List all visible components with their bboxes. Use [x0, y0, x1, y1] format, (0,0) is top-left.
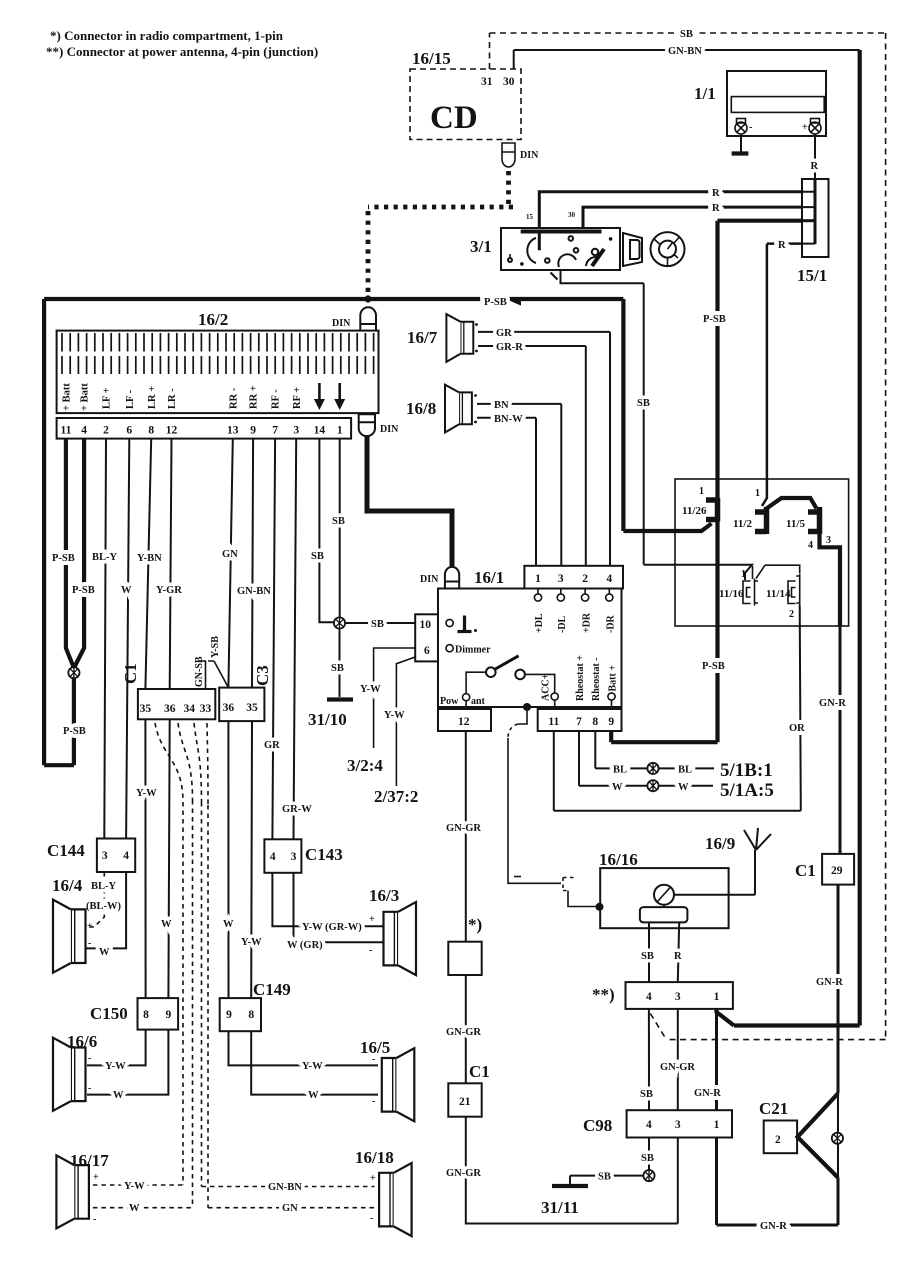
antenna lead triangle at C21: [798, 1093, 839, 1177]
tick below 3/1: [551, 273, 558, 280]
svg-text:31/10: 31/10: [308, 710, 347, 729]
svg-text:21: 21: [459, 1096, 471, 1108]
wire GR pin 7 to C143: [272, 439, 275, 840]
svg-text:15/1: 15/1: [797, 266, 827, 285]
wire GN pin 13 to C3: [228, 439, 232, 688]
wire Y-GR pin 12 to C1: [170, 439, 172, 689]
svg-text:+DR: +DR: [582, 612, 593, 633]
svg-text:3: 3: [102, 850, 108, 862]
svg-text:GN-R: GN-R: [760, 1221, 787, 1232]
svg-text:4: 4: [606, 573, 612, 585]
svg-text:3: 3: [291, 851, 297, 863]
svg-text:C150: C150: [90, 1004, 128, 1023]
svg-text:36: 36: [223, 702, 235, 714]
wire GN-R C98 pin1 to C21 antenna lead: [717, 1138, 839, 1226]
svg-text:SB: SB: [371, 619, 384, 630]
svg-text:W: W: [223, 919, 234, 930]
svg-text:GR-W: GR-W: [282, 804, 312, 815]
connector C143: [264, 839, 301, 873]
wire GN-GR **)3 to C98: [677, 1009, 679, 1110]
svg-text:C1: C1: [795, 861, 816, 880]
svg-text:4: 4: [646, 991, 652, 1003]
motor body: [640, 907, 688, 922]
svg-text:-: -: [372, 1096, 375, 1107]
dashed wires from C1 to rear speakers: [155, 723, 208, 1208]
DIN connector of 16/1: [445, 567, 459, 589]
svg-text:OR: OR: [789, 723, 805, 734]
svg-text:30: 30: [568, 211, 576, 219]
ground 31/10: [327, 697, 353, 701]
svg-text:Y-SB: Y-SB: [210, 636, 221, 658]
svg-text:1: 1: [699, 486, 704, 497]
wire W C3 pin 36 to C149: [227, 721, 229, 998]
svg-text:GN-R: GN-R: [694, 1088, 721, 1099]
svg-text:3/2:4: 3/2:4: [347, 756, 383, 775]
connector C1: [138, 689, 215, 719]
wire W pin 6 to C144: [126, 439, 129, 839]
svg-text:6: 6: [424, 645, 430, 657]
svg-text:SB: SB: [640, 1089, 653, 1100]
svg-text:R: R: [712, 188, 720, 199]
svg-text:9: 9: [608, 716, 614, 728]
svg-text:1: 1: [337, 425, 343, 437]
16/2 connector strip: [57, 331, 379, 414]
svg-text:LR +: LR +: [147, 386, 158, 409]
svg-text:RF -: RF -: [271, 389, 282, 409]
svg-text:33: 33: [200, 703, 212, 715]
svg-text:Y-W: Y-W: [105, 1061, 126, 1072]
wire SB splice to 16/1 pin 10: [345, 622, 415, 624]
svg-text:P-SB: P-SB: [72, 585, 95, 596]
wire BN-W 16/8 to 16/1 pin 1: [477, 418, 536, 566]
svg-text:4: 4: [81, 425, 87, 437]
svg-text:GR: GR: [496, 328, 512, 339]
svg-text:DIN: DIN: [420, 574, 439, 585]
wire GN-BN pin 9 to C3: [252, 439, 253, 688]
svg-text:-: -: [749, 122, 752, 133]
ACC+ pin: [551, 693, 558, 700]
svg-text:3/1: 3/1: [470, 237, 492, 256]
svg-text:LF +: LF +: [102, 387, 113, 409]
svg-text:16/2: 16/2: [198, 310, 228, 329]
wire GR 16/7 to 16/1 pin 4: [478, 332, 610, 566]
svg-text:-: -: [93, 1214, 96, 1225]
svg-text:Batt +: Batt +: [608, 665, 619, 692]
svg-text:GN-R: GN-R: [816, 977, 843, 988]
svg-text:+: +: [93, 1172, 99, 1183]
splice of P-SB wires: [68, 667, 79, 678]
wire Y-W from 16/1 pin6 box to 3/2:4: [374, 648, 416, 748]
svg-text:9: 9: [226, 1009, 232, 1021]
ground of 1/1 left bulb: [740, 134, 742, 152]
svg-text:7: 7: [576, 716, 582, 728]
svg-text:8: 8: [148, 425, 154, 437]
wire SB splice to ground 31/11: [570, 1176, 643, 1184]
svg-text:Y-GR: Y-GR: [156, 585, 182, 596]
wire from junction to 16/16: [518, 711, 527, 724]
DIN connector of CD: [502, 143, 515, 167]
svg-text:DIN: DIN: [520, 150, 539, 161]
switch inside 16/1: [466, 672, 486, 693]
svg-text:GN-GR: GN-GR: [446, 823, 481, 834]
svg-text:C3: C3: [253, 665, 272, 686]
wire C98 pin3 down to GN-GR run: [677, 1138, 679, 1224]
svg-text:6: 6: [126, 425, 132, 437]
svg-text:Pow: Pow: [440, 696, 459, 707]
svg-text:Y-W (GR-W): Y-W (GR-W): [302, 922, 362, 933]
wire R from 1/1 right bulb to 15/1: [814, 134, 816, 179]
fuse box: [675, 479, 849, 626]
wire GN-SB stub on C1 pin 33: [199, 661, 206, 689]
svg-text:RF +: RF +: [292, 387, 303, 409]
svg-text:+: +: [802, 122, 808, 133]
svg-text:11: 11: [60, 425, 71, 437]
svg-text:*): *): [468, 915, 482, 934]
wire GN-GR 16/1 pin 12 chain: [465, 731, 467, 942]
Pow ant pin: [463, 694, 470, 701]
svg-text:9: 9: [166, 1009, 172, 1021]
svg-text:GR-R: GR-R: [496, 342, 523, 353]
svg-text:P-SB: P-SB: [484, 297, 507, 308]
svg-text:4: 4: [270, 851, 276, 863]
svg-text:12: 12: [458, 716, 470, 728]
svg-text:16/8: 16/8: [406, 399, 436, 418]
wire SB pin 14: [319, 439, 334, 623]
wire W C144 to 16/4: [86, 872, 126, 948]
junction dot on P-SB top line: [364, 295, 371, 302]
svg-text:GN-BN: GN-BN: [668, 46, 702, 57]
16/1 bottom strip pins 11 7 8 9: [538, 709, 622, 731]
wire OR 11/14 to 16/1 pin 11: [554, 606, 801, 811]
bridge 11/2 to 11/5: [766, 498, 816, 509]
svg-text:11/16: 11/16: [719, 588, 744, 600]
svg-text:P-SB: P-SB: [63, 726, 86, 737]
wire W C1 pin 36 to C150: [168, 719, 169, 998]
wire BL-Y pin 2 to C144: [104, 439, 106, 839]
wire SB pin 1: [339, 439, 341, 617]
svg-text:R: R: [674, 951, 682, 962]
16/1 left connector box pins 10 6: [415, 614, 438, 661]
wire Y-W C1 pin 35 to C150: [144, 719, 146, 998]
wire R ignition to 15/1 (second): [583, 207, 802, 228]
svg-text:31: 31: [481, 76, 493, 88]
svg-text:(BL-W): (BL-W): [86, 901, 122, 912]
svg-text:+: +: [87, 921, 93, 932]
svg-text:Y-W: Y-W: [302, 1061, 323, 1072]
svg-text:W: W: [161, 919, 172, 930]
svg-text:BL-Y: BL-Y: [92, 552, 118, 563]
wire antenna to 16/9: [674, 850, 755, 895]
svg-text:C21: C21: [759, 1099, 788, 1118]
svg-text:Y-W: Y-W: [136, 788, 157, 799]
svg-text:GN-GR: GN-GR: [446, 1027, 481, 1038]
svg-text:16/3: 16/3: [369, 886, 399, 905]
16/2 pin number row: [57, 418, 352, 439]
Batt+ pin: [608, 693, 615, 700]
svg-text:GN-SB: GN-SB: [194, 656, 205, 687]
svg-text:1: 1: [714, 991, 720, 1003]
svg-text:R: R: [811, 161, 819, 172]
wire W C149 to 16/5: [251, 1031, 378, 1094]
svg-text:-: -: [88, 1053, 91, 1064]
svg-text:**): **): [592, 985, 615, 1004]
svg-text:8: 8: [248, 1009, 254, 1021]
svg-text:-: -: [88, 938, 91, 949]
wire W 16/1 pin 7 to 5/1A:5: [579, 731, 713, 786]
svg-text:P-SB: P-SB: [702, 661, 725, 672]
junction dot on 16/1 bottom edge: [523, 703, 531, 711]
key bezel of 3/1: [623, 233, 642, 266]
svg-text:DIN: DIN: [332, 318, 351, 329]
svg-text:SB: SB: [637, 398, 650, 409]
wire Y-BN pin 8 to C1: [145, 439, 151, 689]
svg-text:7: 7: [272, 425, 278, 437]
wire Y-W C3 pin 35 to C149: [250, 721, 253, 998]
svg-text:13: 13: [227, 425, 239, 437]
svg-text:2: 2: [582, 573, 588, 585]
svg-text:Y-W: Y-W: [360, 684, 381, 695]
svg-text:C149: C149: [253, 980, 291, 999]
svg-text:C1: C1: [121, 663, 140, 684]
svg-text:16/1: 16/1: [474, 568, 504, 587]
svg-text:16/15: 16/15: [412, 49, 451, 68]
16/2 rotated pin labels: [62, 383, 303, 411]
svg-text:GN: GN: [282, 1203, 298, 1214]
bulb left of 1/1: [735, 119, 747, 135]
svg-text:GN-R: GN-R: [819, 698, 846, 709]
wire R ignition to 15/1 (top): [539, 192, 802, 228]
svg-text:34: 34: [183, 703, 195, 715]
wire W (GR) C143 to 16/3: [294, 873, 384, 942]
svg-text:C98: C98: [583, 1116, 612, 1135]
svg-text:1: 1: [535, 573, 541, 585]
wire GR-R 16/7 to 16/1 pin 2: [478, 346, 586, 566]
svg-text:GN-BN: GN-BN: [268, 1182, 302, 1193]
wire SB C98 pin4 to ground splice: [648, 1138, 650, 1171]
svg-text:SB: SB: [641, 1153, 654, 1164]
svg-text:5/1A:5: 5/1A:5: [720, 780, 774, 801]
wire dotted DIN cable from CD to 16/2: [368, 171, 513, 296]
wire GN-BN thick right border: [717, 50, 860, 1026]
wire GN-BN from CD pin 30 to right border: [514, 50, 860, 69]
wire Y-W (GR-W) C143 to 16/3: [272, 873, 383, 926]
wire Y-W dashed to 16/17: [93, 1184, 183, 1186]
svg-text:+ Batt: + Batt: [62, 383, 73, 411]
svg-text:3: 3: [675, 1119, 681, 1131]
svg-text:*) Connector in radio compartm: *) Connector in radio compartment, 1-pin: [50, 28, 284, 43]
svg-text:14: 14: [314, 425, 326, 437]
svg-text:W: W: [612, 782, 623, 793]
svg-text:P-SB: P-SB: [52, 553, 75, 564]
svg-text:+: +: [369, 914, 375, 925]
wire SB from 3/1 bottom: [561, 270, 753, 580]
wire GR-W pin 3 to C143: [294, 439, 297, 840]
wire Y-SB stub to C3 pin 36: [208, 661, 228, 688]
svg-text:W (GR): W (GR): [287, 940, 323, 951]
svg-text:W: W: [129, 1203, 140, 1214]
svg-text:SB: SB: [680, 29, 693, 40]
wire P-SB vertical to 15/1: [611, 221, 802, 743]
svg-text:Y-W: Y-W: [241, 937, 262, 948]
pin 10 contact and ground: [446, 619, 453, 626]
connector C3: [219, 688, 264, 722]
arrow on P-SB wire: [511, 297, 521, 306]
svg-text:**) Connector at power antenna: **) Connector at power antenna, 4-pin (j…: [46, 44, 318, 59]
wire Y-W C150 to 16/6: [87, 1030, 146, 1066]
16/1 top pin circles and labels: [534, 589, 613, 602]
svg-text:-: -: [370, 1213, 373, 1224]
svg-text:SB: SB: [311, 551, 324, 562]
svg-text:Dimmer: Dimmer: [455, 645, 491, 656]
16/1 main box: [438, 589, 622, 708]
wire W C150 to 16/6: [87, 1030, 168, 1095]
svg-text:2: 2: [775, 1134, 781, 1146]
wire SB 16/16 to connector: [648, 922, 650, 982]
16/1 top connector strip: [524, 566, 623, 589]
svg-text:2: 2: [789, 609, 794, 620]
svg-text:Rheostat -: Rheostat -: [591, 657, 602, 701]
svg-text:3: 3: [293, 425, 299, 437]
wire Y-W C149 to 16/5: [229, 1031, 379, 1065]
wire W dashed to 16/17: [93, 1207, 193, 1209]
wire R from 15/1 down to fuse 11/2: [762, 244, 802, 506]
svg-text:C1: C1: [469, 1062, 490, 1081]
svg-text:Y-W: Y-W: [124, 1181, 145, 1192]
svg-text:2: 2: [103, 425, 109, 437]
svg-text:-: -: [372, 1054, 375, 1065]
svg-text:11: 11: [548, 716, 559, 728]
16/1 bottom strip pin 12: [438, 709, 491, 731]
svg-text:BL: BL: [678, 765, 692, 776]
svg-text:W: W: [99, 947, 110, 958]
svg-text:11/5: 11/5: [786, 518, 805, 530]
svg-text:30: 30: [503, 76, 515, 88]
svg-text:2/37:2: 2/37:2: [374, 787, 418, 806]
svg-text:LF -: LF -: [125, 389, 136, 409]
svg-text:16/16: 16/16: [599, 850, 638, 869]
wire Y-W to 2/37:2: [396, 657, 415, 786]
svg-text:R: R: [778, 240, 786, 251]
svg-text:1: 1: [755, 488, 760, 499]
svg-text:15: 15: [526, 213, 534, 221]
key ring of 3/1: [651, 232, 685, 266]
svg-text:4: 4: [646, 1119, 652, 1131]
svg-text:RR -: RR -: [228, 387, 239, 409]
svg-text:10: 10: [420, 619, 432, 631]
svg-text:8: 8: [592, 716, 598, 728]
wire GN-BN dashed to 16/18: [202, 1186, 375, 1188]
svg-text:GN-GR: GN-GR: [660, 1062, 695, 1073]
svg-text:Y-W: Y-W: [384, 710, 405, 721]
svg-text:LR -: LR -: [167, 388, 178, 409]
wire SB **)4 to C98: [648, 1009, 650, 1110]
bulb right of 1/1: [809, 119, 821, 135]
svg-text:12: 12: [166, 425, 178, 437]
svg-text:GN-GR: GN-GR: [446, 1168, 481, 1179]
svg-text:5/1B:1: 5/1B:1: [720, 760, 773, 781]
svg-text:Rheostat +: Rheostat +: [575, 655, 586, 701]
splice of SB wires: [334, 617, 345, 628]
svg-text:W: W: [308, 1090, 319, 1101]
svg-text:8: 8: [143, 1009, 149, 1021]
svg-text:4: 4: [123, 850, 129, 862]
svg-text:-: -: [369, 945, 372, 956]
svg-text:SB: SB: [332, 516, 345, 527]
svg-text:1: 1: [741, 569, 746, 580]
svg-text:ACC+: ACC+: [541, 673, 552, 701]
svg-text:R: R: [712, 203, 720, 214]
svg-text:W: W: [121, 585, 132, 596]
DIN connector top of 16/2: [360, 307, 376, 330]
svg-text:BL-Y: BL-Y: [91, 881, 117, 892]
svg-text:ant: ant: [471, 696, 486, 707]
wire P-SB left loop: [44, 299, 74, 765]
svg-text:16/7: 16/7: [407, 328, 438, 347]
svg-text:3: 3: [558, 573, 564, 585]
svg-text:GN: GN: [222, 549, 238, 560]
svg-text:BN-W: BN-W: [494, 414, 523, 425]
svg-text:C144: C144: [47, 841, 85, 860]
motor circle: [654, 885, 674, 905]
svg-text:16/4: 16/4: [52, 876, 83, 895]
svg-text:Y-BN: Y-BN: [137, 553, 162, 564]
svg-text:3: 3: [826, 535, 831, 546]
svg-text:9: 9: [250, 425, 256, 437]
svg-text:-DR: -DR: [606, 614, 617, 633]
wire SB dashed from CD pin 31 to right border loop: [490, 33, 886, 1040]
svg-text:GN-BN: GN-BN: [237, 586, 271, 597]
wire SB splice to ground 31/10: [339, 629, 341, 697]
svg-text:31/11: 31/11: [541, 1198, 579, 1217]
svg-text:16/9: 16/9: [705, 834, 735, 853]
svg-text:35: 35: [140, 703, 152, 715]
svg-text:CD: CD: [430, 100, 478, 136]
svg-text:BL: BL: [613, 765, 627, 776]
svg-text:P-SB: P-SB: [703, 314, 726, 325]
wire BL 16/1 pin 8 to 5/1B:1: [595, 731, 714, 768]
svg-text:36: 36: [164, 703, 176, 715]
wire R 16/16 to connector: [678, 922, 679, 982]
wire BN 16/8 to 16/1 pin 3: [477, 404, 561, 566]
svg-text:SB: SB: [331, 663, 344, 674]
svg-text:-DL: -DL: [557, 615, 568, 633]
svg-text:3: 3: [675, 991, 681, 1003]
pin 6 contact and Dimmer: [446, 645, 453, 652]
svg-text:GR: GR: [264, 740, 280, 751]
connector 15/1: [802, 179, 829, 257]
wire GN-R C1 29 down to antenna lead: [837, 885, 840, 1094]
svg-text:RR +: RR +: [249, 385, 260, 409]
svg-text:-: -: [88, 1083, 91, 1094]
wire GN-R from 11/5 down to C1 29: [820, 534, 841, 626]
svg-text:+ Batt: + Batt: [80, 383, 91, 411]
svg-text:BN: BN: [494, 400, 509, 411]
svg-text:SB: SB: [598, 1172, 611, 1183]
svg-text:DIN: DIN: [380, 424, 399, 435]
wire 11/16 to 11/14: [765, 565, 800, 573]
wire GN-R **)1 to C98: [715, 1009, 718, 1110]
wire DIN cable 16/2 to 16/1: [367, 436, 452, 567]
svg-text:1/1: 1/1: [694, 84, 716, 103]
wire BL-Y dashed C144 to 16/4: [87, 872, 104, 927]
svg-text:11/2: 11/2: [733, 518, 752, 530]
svg-text:+: +: [370, 1173, 376, 1184]
wire P-SB from pin 4: [74, 439, 84, 668]
svg-text:29: 29: [831, 865, 843, 877]
wire P-SB from pin 11: [66, 439, 74, 668]
svg-text:W: W: [113, 1090, 124, 1101]
svg-text:C143: C143: [305, 845, 343, 864]
